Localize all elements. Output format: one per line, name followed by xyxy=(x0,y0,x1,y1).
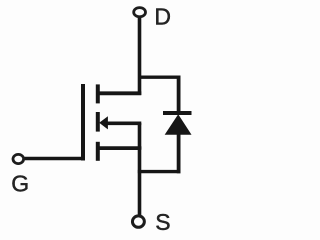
svg-text:S: S xyxy=(155,209,170,235)
wire: gate horizontal xyxy=(25,157,85,161)
diode D1 cathode bar xyxy=(163,111,192,115)
terminal D xyxy=(134,8,146,17)
wire: diode branch upper vertical xyxy=(177,76,181,114)
wire: drain lead vertical xyxy=(138,17,142,95)
wire: drain horizontal to channel xyxy=(98,91,141,95)
wire: body horizontal xyxy=(105,122,141,126)
terminal S xyxy=(132,216,144,227)
svg-text:D: D xyxy=(154,3,171,29)
MOSFET Q1 channel bar (drain stub) xyxy=(96,84,100,103)
wire: diode bottom horizontal xyxy=(138,170,181,173)
wire: diode branch lower vertical xyxy=(177,133,181,173)
diode D1 anode triangle xyxy=(166,115,191,134)
svg-text:G: G xyxy=(11,170,29,196)
arrowhead (body, pointing to channel) xyxy=(100,117,107,128)
MOSFET Q1 channel bar (body stub) xyxy=(96,112,100,132)
MOSFET Q1 channel bar (source stub) xyxy=(96,142,100,161)
wire: body to source vertical xyxy=(138,123,142,149)
wire: source horizontal to channel xyxy=(98,146,141,150)
wire: source lead vertical xyxy=(138,147,142,216)
terminal G xyxy=(13,154,24,163)
MOSFET Q1 gate plate xyxy=(81,84,85,161)
wire: top branch to diode xyxy=(139,75,179,78)
